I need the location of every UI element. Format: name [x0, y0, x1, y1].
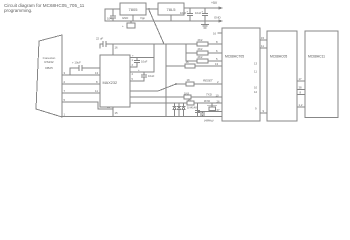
wire chip2-chip3 row2 — [297, 89, 305, 91]
capacitor C8 — [188, 8, 193, 21]
svg-text:2K2: 2K2 — [198, 38, 203, 42]
wire DB25 pin 5 to MAX232 pin 15 — [62, 102, 113, 117]
svg-text:11: 11 — [95, 89, 98, 93]
svg-text:13: 13 — [215, 62, 219, 66]
wire Vpp vertical — [165, 44, 167, 117]
svg-text:104: 104 — [107, 17, 112, 21]
crystal cap CA — [195, 103, 199, 117]
resistor R1 row A 2K2 — [197, 42, 208, 46]
capacitor C1 22uF on V+ rail — [100, 42, 113, 49]
svg-text:3: 3 — [64, 71, 66, 75]
resistor row A wire — [164, 43, 222, 45]
svg-text:2K2: 2K2 — [198, 55, 203, 59]
svg-text:9: 9 — [263, 109, 265, 113]
resistor R3 row C 2K2 — [186, 60, 222, 62]
resistor R4 row D 1K — [166, 65, 222, 67]
wire DB25 pin 3 to MAX232 — [62, 74, 100, 76]
capacitor C3 +10uF — [70, 66, 100, 76]
svg-text:1K: 1K — [186, 60, 190, 64]
svg-text:26: 26 — [217, 100, 221, 104]
svg-text:1,2: 1,2 — [299, 103, 303, 107]
svg-text:programming.: programming. — [4, 8, 32, 13]
diode D3 — [182, 103, 185, 117]
svg-text:2K2: 2K2 — [198, 47, 203, 51]
svg-text:MC68HC11: MC68HC11 — [308, 55, 325, 59]
wire chip2-chip3 row4 — [297, 106, 305, 108]
svg-text:11: 11 — [261, 44, 264, 48]
title text — [4, 3, 85, 13]
ground symbol — [202, 21, 209, 28]
svg-text:2: 2 — [64, 80, 66, 84]
GND rail with arrow — [105, 20, 220, 22]
svg-text:1K8: 1K8 — [184, 91, 189, 95]
svg-text:+: + — [132, 54, 134, 58]
IC U1 MAX232 — [100, 55, 130, 107]
AC input wire — [105, 9, 120, 21]
svg-text:RS232: RS232 — [44, 60, 54, 64]
capacitor C9 — [203, 8, 208, 21]
svg-text:1: 1 — [64, 113, 66, 117]
crystal X1 — [198, 103, 223, 112]
svg-text:8: 8 — [300, 91, 302, 95]
svg-text:13: 13 — [95, 71, 99, 75]
resistor R2 row B 2K2 — [186, 52, 222, 54]
pin 16 stub — [218, 32, 222, 34]
regulator ground pins — [133, 15, 171, 21]
+5V output rail with arrow — [184, 7, 220, 9]
IC U5 MC68HC05 — [267, 31, 297, 121]
svg-text:MC68HC705: MC68HC705 — [225, 55, 244, 59]
crystal cap CB — [200, 112, 204, 117]
svg-text:2: 2 — [217, 80, 219, 84]
svg-text:1: 1 — [132, 59, 134, 62]
vertical to rows B C — [185, 44, 187, 61]
svg-text:1N4148: 1N4148 — [187, 106, 197, 110]
svg-text:10uF: 10uF — [148, 74, 155, 78]
svg-text:RESET: RESET — [203, 79, 213, 83]
svg-text:+: + — [138, 68, 140, 72]
wire chip1-chip2 row3 — [260, 112, 267, 114]
svg-text:+: + — [202, 10, 204, 14]
svg-text:+: + — [187, 10, 189, 14]
svg-text:17: 17 — [299, 77, 303, 81]
capacitor C4 right top 10uF — [130, 44, 154, 67]
wire chip1-chip2 row2 — [260, 47, 267, 49]
svg-text:MAX232: MAX232 — [103, 81, 118, 85]
capacitor C6 on input — [111, 9, 116, 21]
svg-text:4: 4 — [132, 73, 134, 76]
svg-text:RXD: RXD — [204, 99, 210, 103]
wire chip1-chip2 row1 — [260, 39, 267, 41]
svg-text:(4MHz): (4MHz) — [204, 119, 214, 123]
svg-text:DB25: DB25 — [45, 66, 53, 70]
svg-text:1K: 1K — [187, 78, 191, 82]
wire MAX232 pin16 — [112, 44, 114, 55]
wire DB25 gnd to bottom rail — [62, 116, 222, 118]
svg-text:10: 10 — [254, 86, 258, 90]
svg-text:13: 13 — [254, 62, 258, 66]
rail V+ row — [113, 43, 222, 45]
svg-text:7805: 7805 — [129, 7, 139, 12]
wire DB25 pin 7 to MAX232 — [62, 92, 100, 94]
svg-text:+5V: +5V — [211, 1, 218, 5]
chip1 right edge pin stubs — [254, 62, 258, 111]
wire between regulators — [146, 8, 158, 10]
svg-text:15: 15 — [115, 111, 119, 115]
wire chip2-chip3 row1 — [297, 80, 305, 82]
connector J1 DB25 — [36, 35, 62, 117]
wire DB25 pin 2 to MAX232 — [62, 83, 100, 85]
IC U4 MC68HC705 — [222, 28, 260, 121]
svg-text:15: 15 — [261, 36, 265, 40]
svg-text:78L5: 78L5 — [167, 7, 177, 12]
capacitor C5 right 10uF — [130, 58, 154, 82]
svg-text:5: 5 — [64, 98, 66, 102]
resistor R6 TXD 1K8 — [130, 96, 222, 98]
svg-text:GND: GND — [214, 16, 222, 20]
svg-text:8: 8 — [216, 40, 218, 44]
svg-text:1K: 1K — [188, 97, 192, 101]
resistor R5 RESET 1K — [176, 83, 222, 85]
regulator U3 78L5 box — [158, 3, 184, 15]
svg-text:38: 38 — [299, 86, 303, 90]
svg-text:22 uF: 22 uF — [96, 37, 103, 41]
svg-text:7: 7 — [64, 89, 66, 93]
svg-text:16: 16 — [213, 32, 217, 36]
wire chip2-chip3 row3 — [297, 94, 305, 96]
regulator U2 7805 box — [120, 3, 146, 15]
svg-text:11: 11 — [254, 70, 257, 74]
svg-text:6: 6 — [216, 49, 218, 53]
svg-text:MC68HC05: MC68HC05 — [270, 55, 287, 59]
node Vpp junction — [148, 8, 150, 10]
svg-text:+ 10uF: + 10uF — [72, 61, 81, 65]
svg-text:10: 10 — [216, 94, 220, 98]
capacitor C7 electrolytic below rail — [130, 21, 132, 23]
svg-text:12: 12 — [254, 90, 258, 94]
svg-text:+: + — [122, 24, 124, 28]
wire MAX232 T1OUT diagonal up — [130, 84, 176, 91]
svg-text:8: 8 — [96, 80, 98, 84]
svg-text:GND: GND — [122, 16, 128, 20]
svg-text:TXD: TXD — [206, 93, 212, 97]
svg-text:10uF: 10uF — [141, 60, 148, 64]
svg-text:5: 5 — [216, 57, 218, 61]
svg-text:Vpp: Vpp — [140, 16, 145, 20]
diode D1 — [173, 103, 176, 117]
svg-text:16: 16 — [115, 46, 119, 50]
IC U6 MC68HC11 — [305, 31, 338, 118]
svg-text:27: 27 — [217, 108, 221, 112]
diode D2 — [178, 103, 181, 117]
wire Vpp diagonal — [149, 10, 164, 44]
resistor R7 RXD 1K — [130, 102, 222, 104]
node vertical crossing dots — [165, 96, 167, 98]
